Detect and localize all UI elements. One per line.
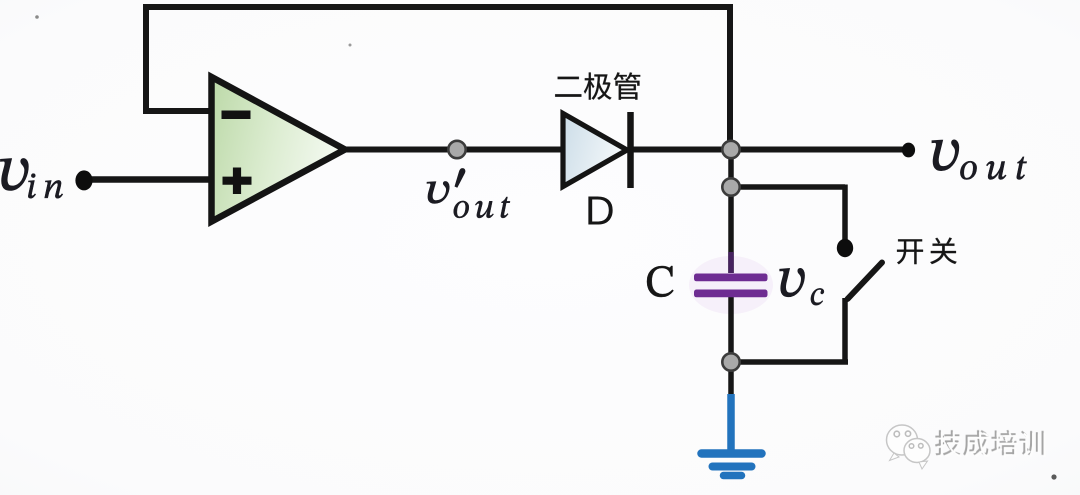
label v'_out prime: [455, 169, 465, 188]
ground bar 1: [702, 449, 762, 458]
wire diode cathode to junction node A: [630, 147, 733, 153]
label v'_out subscript out: [454, 197, 510, 218]
diode D body: [563, 114, 627, 187]
label 开关 (switch caption): [897, 238, 957, 265]
wire feedback top horizontal: [146, 4, 730, 10]
wire junction node A to vout terminal: [731, 147, 908, 153]
wire op-amp output to diode anode: [345, 147, 564, 153]
switch contact dot: [837, 239, 853, 257]
terminal dot vout: [902, 143, 915, 158]
label v_in subscript in: [28, 174, 62, 199]
wire feedback left vertical: [143, 4, 149, 111]
op-amp non-inverting input plus symbol: [223, 168, 252, 195]
label v_c subscript c: [811, 288, 824, 305]
capacitor C bottom plate: [694, 290, 768, 298]
watermark text 技成培训: [937, 432, 1046, 457]
svg-text:D: D: [585, 188, 615, 234]
wire node B down to capacitor top plate: [728, 187, 734, 273]
label v_c letter v: [780, 268, 805, 296]
label v_out letter v: [932, 140, 959, 171]
ground bar 3: [724, 472, 742, 480]
node B (capacitor / switch top): [722, 178, 739, 195]
label v_out subscript out: [960, 157, 1026, 180]
wire switch top vertical: [842, 185, 848, 245]
wire feedback into inverting input: [143, 108, 212, 114]
wire node A down to node B: [728, 150, 734, 187]
op-amp U1 body: [212, 77, 346, 222]
wire input from vin to non-inverting input: [84, 176, 212, 183]
label 二极管 (diode caption): [555, 72, 640, 99]
label v'_out letter v: [427, 181, 449, 203]
watermark text 技成培训 shadow: [935, 430, 1044, 455]
watermark wechat icon: [887, 425, 931, 469]
ground stem: [727, 394, 735, 452]
ground bar 2: [713, 463, 752, 471]
wire capacitor bottom plate to node C and ground: [728, 297, 734, 397]
speckle artifact bottom right: [1051, 474, 1056, 479]
label v_in letter v: [1, 159, 29, 191]
wire switch branch bottom to node C: [731, 359, 848, 365]
op-amp inverting input minus symbol: [222, 111, 251, 120]
wire right vertical from top to output node: [727, 4, 733, 150]
capacitor C top plate: [694, 274, 768, 282]
junction node A (diode cathode / vout / feedback): [722, 141, 739, 158]
capacitor top lead purple tint: [728, 252, 734, 273]
node C (ground junction): [722, 353, 739, 370]
diode D cathode bar: [627, 112, 634, 188]
speckle artifact mid top: [349, 44, 352, 47]
terminal dot vin: [75, 170, 92, 190]
wire switch bottom vertical: [842, 298, 848, 362]
capacitor C halo: [689, 256, 773, 314]
node vout-prime (op-amp output node): [448, 141, 465, 158]
label C (capacitor value): [647, 266, 674, 297]
switch blade: [848, 263, 883, 300]
speckle artifact top left: [35, 15, 39, 19]
wire node B to switch branch: [731, 184, 845, 190]
